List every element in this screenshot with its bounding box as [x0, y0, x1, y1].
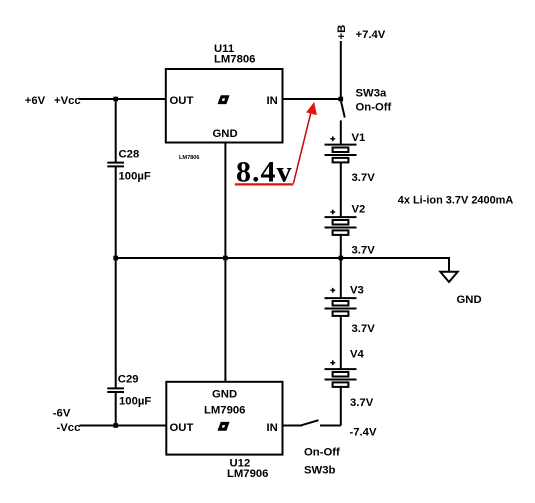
U12 body icon	[218, 422, 230, 431]
wire C28 to mid rail	[115, 166, 117, 258]
svg-text:GND: GND	[213, 128, 238, 140]
wire U11 GND to U12 GND	[224, 143, 226, 382]
ground symbol	[440, 272, 457, 282]
junction dot mid-left	[113, 256, 118, 261]
wire -Vcc to U12 OUT	[80, 425, 167, 427]
svg-text:LM7806: LM7806	[214, 54, 255, 66]
svg-text:IN: IN	[267, 422, 278, 434]
svg-text:SW3a: SW3a	[356, 88, 387, 100]
svg-text:4x Li-ion 3.7V 2400mA: 4x Li-ion 3.7V 2400mA	[398, 194, 514, 206]
svg-text:LM7906: LM7906	[204, 404, 245, 416]
switch SW3a contact wire	[340, 120, 342, 144]
switch SW3b contact wire	[320, 425, 341, 427]
svg-text:C28: C28	[119, 149, 140, 161]
red arrow head	[306, 102, 317, 115]
battery V1	[325, 145, 357, 163]
wire C29 to bottom rail	[115, 392, 117, 426]
svg-text:OUT: OUT	[170, 95, 194, 107]
svg-text:+B: +B	[336, 25, 348, 40]
svg-text:OUT: OUT	[170, 422, 194, 434]
wire V2 to mid rail	[340, 235, 342, 258]
wire mid rail to C29	[115, 258, 117, 388]
svg-text:SW3b: SW3b	[304, 465, 335, 477]
svg-text:V3: V3	[350, 285, 364, 297]
regulator U11 box	[166, 69, 283, 143]
svg-text:IN: IN	[267, 95, 278, 107]
junction dot mid-battery	[339, 256, 344, 261]
svg-text:V2: V2	[352, 204, 366, 216]
svg-text:3.7V: 3.7V	[352, 172, 376, 184]
wire mid rail to V3	[340, 258, 342, 298]
svg-text:LM7806: LM7806	[179, 155, 200, 161]
mid ground rail wire	[116, 258, 449, 272]
svg-text:LM7906: LM7906	[227, 468, 268, 480]
svg-text:+7.4V: +7.4V	[356, 29, 386, 41]
battery V3	[325, 298, 357, 316]
svg-text:-Vcc: -Vcc	[57, 422, 81, 434]
svg-text:-7.4V: -7.4V	[350, 427, 377, 439]
wire +Vcc to U11 OUT	[79, 98, 166, 100]
wire V3 to V4	[340, 316, 342, 369]
junction dot mid-center	[223, 256, 228, 261]
svg-text:V4: V4	[350, 349, 365, 361]
junction dot at SW3a	[339, 97, 344, 102]
plus sign V1	[330, 136, 335, 141]
svg-text:+Vcc: +Vcc	[54, 95, 81, 107]
svg-text:C29: C29	[118, 374, 139, 386]
svg-text:GND: GND	[457, 294, 482, 306]
wire U12 IN to SW3b	[283, 425, 303, 427]
svg-text:3.7V: 3.7V	[352, 323, 376, 335]
svg-text:100µF: 100µF	[119, 171, 151, 183]
junction dot top-left	[113, 97, 118, 102]
red underline	[235, 183, 294, 185]
switch SW3b blade	[300, 420, 319, 426]
svg-text:V1: V1	[352, 132, 366, 144]
battery V2	[325, 217, 357, 235]
svg-text:On-Off: On-Off	[304, 447, 340, 459]
wire U11 IN to switch	[283, 98, 341, 100]
plus sign V3	[330, 288, 335, 293]
switch SW3a blade	[341, 101, 345, 117]
plus sign V2	[330, 210, 335, 215]
svg-text:GND: GND	[212, 389, 237, 401]
plus sign V4	[330, 360, 335, 365]
svg-text:3.7V: 3.7V	[352, 245, 376, 257]
svg-text:3.7V: 3.7V	[350, 397, 374, 409]
svg-text:+6V: +6V	[25, 95, 46, 107]
red arrow shaft	[293, 113, 310, 184]
svg-text:100µF: 100µF	[119, 395, 151, 407]
wire V1 to V2	[340, 162, 342, 217]
U11 body icon	[218, 95, 230, 104]
capacitor C28	[107, 163, 124, 167]
svg-text:On-Off: On-Off	[356, 102, 392, 114]
capacitor C29	[107, 388, 124, 392]
regulator U12 box	[166, 382, 282, 455]
terminal +B wire	[340, 41, 342, 99]
wire left vertical to C28	[115, 99, 117, 162]
junction dot bottom-left	[113, 423, 118, 428]
wire V4 to SW3b	[340, 387, 342, 426]
svg-text:-6V: -6V	[53, 408, 71, 420]
battery V4	[325, 369, 357, 387]
